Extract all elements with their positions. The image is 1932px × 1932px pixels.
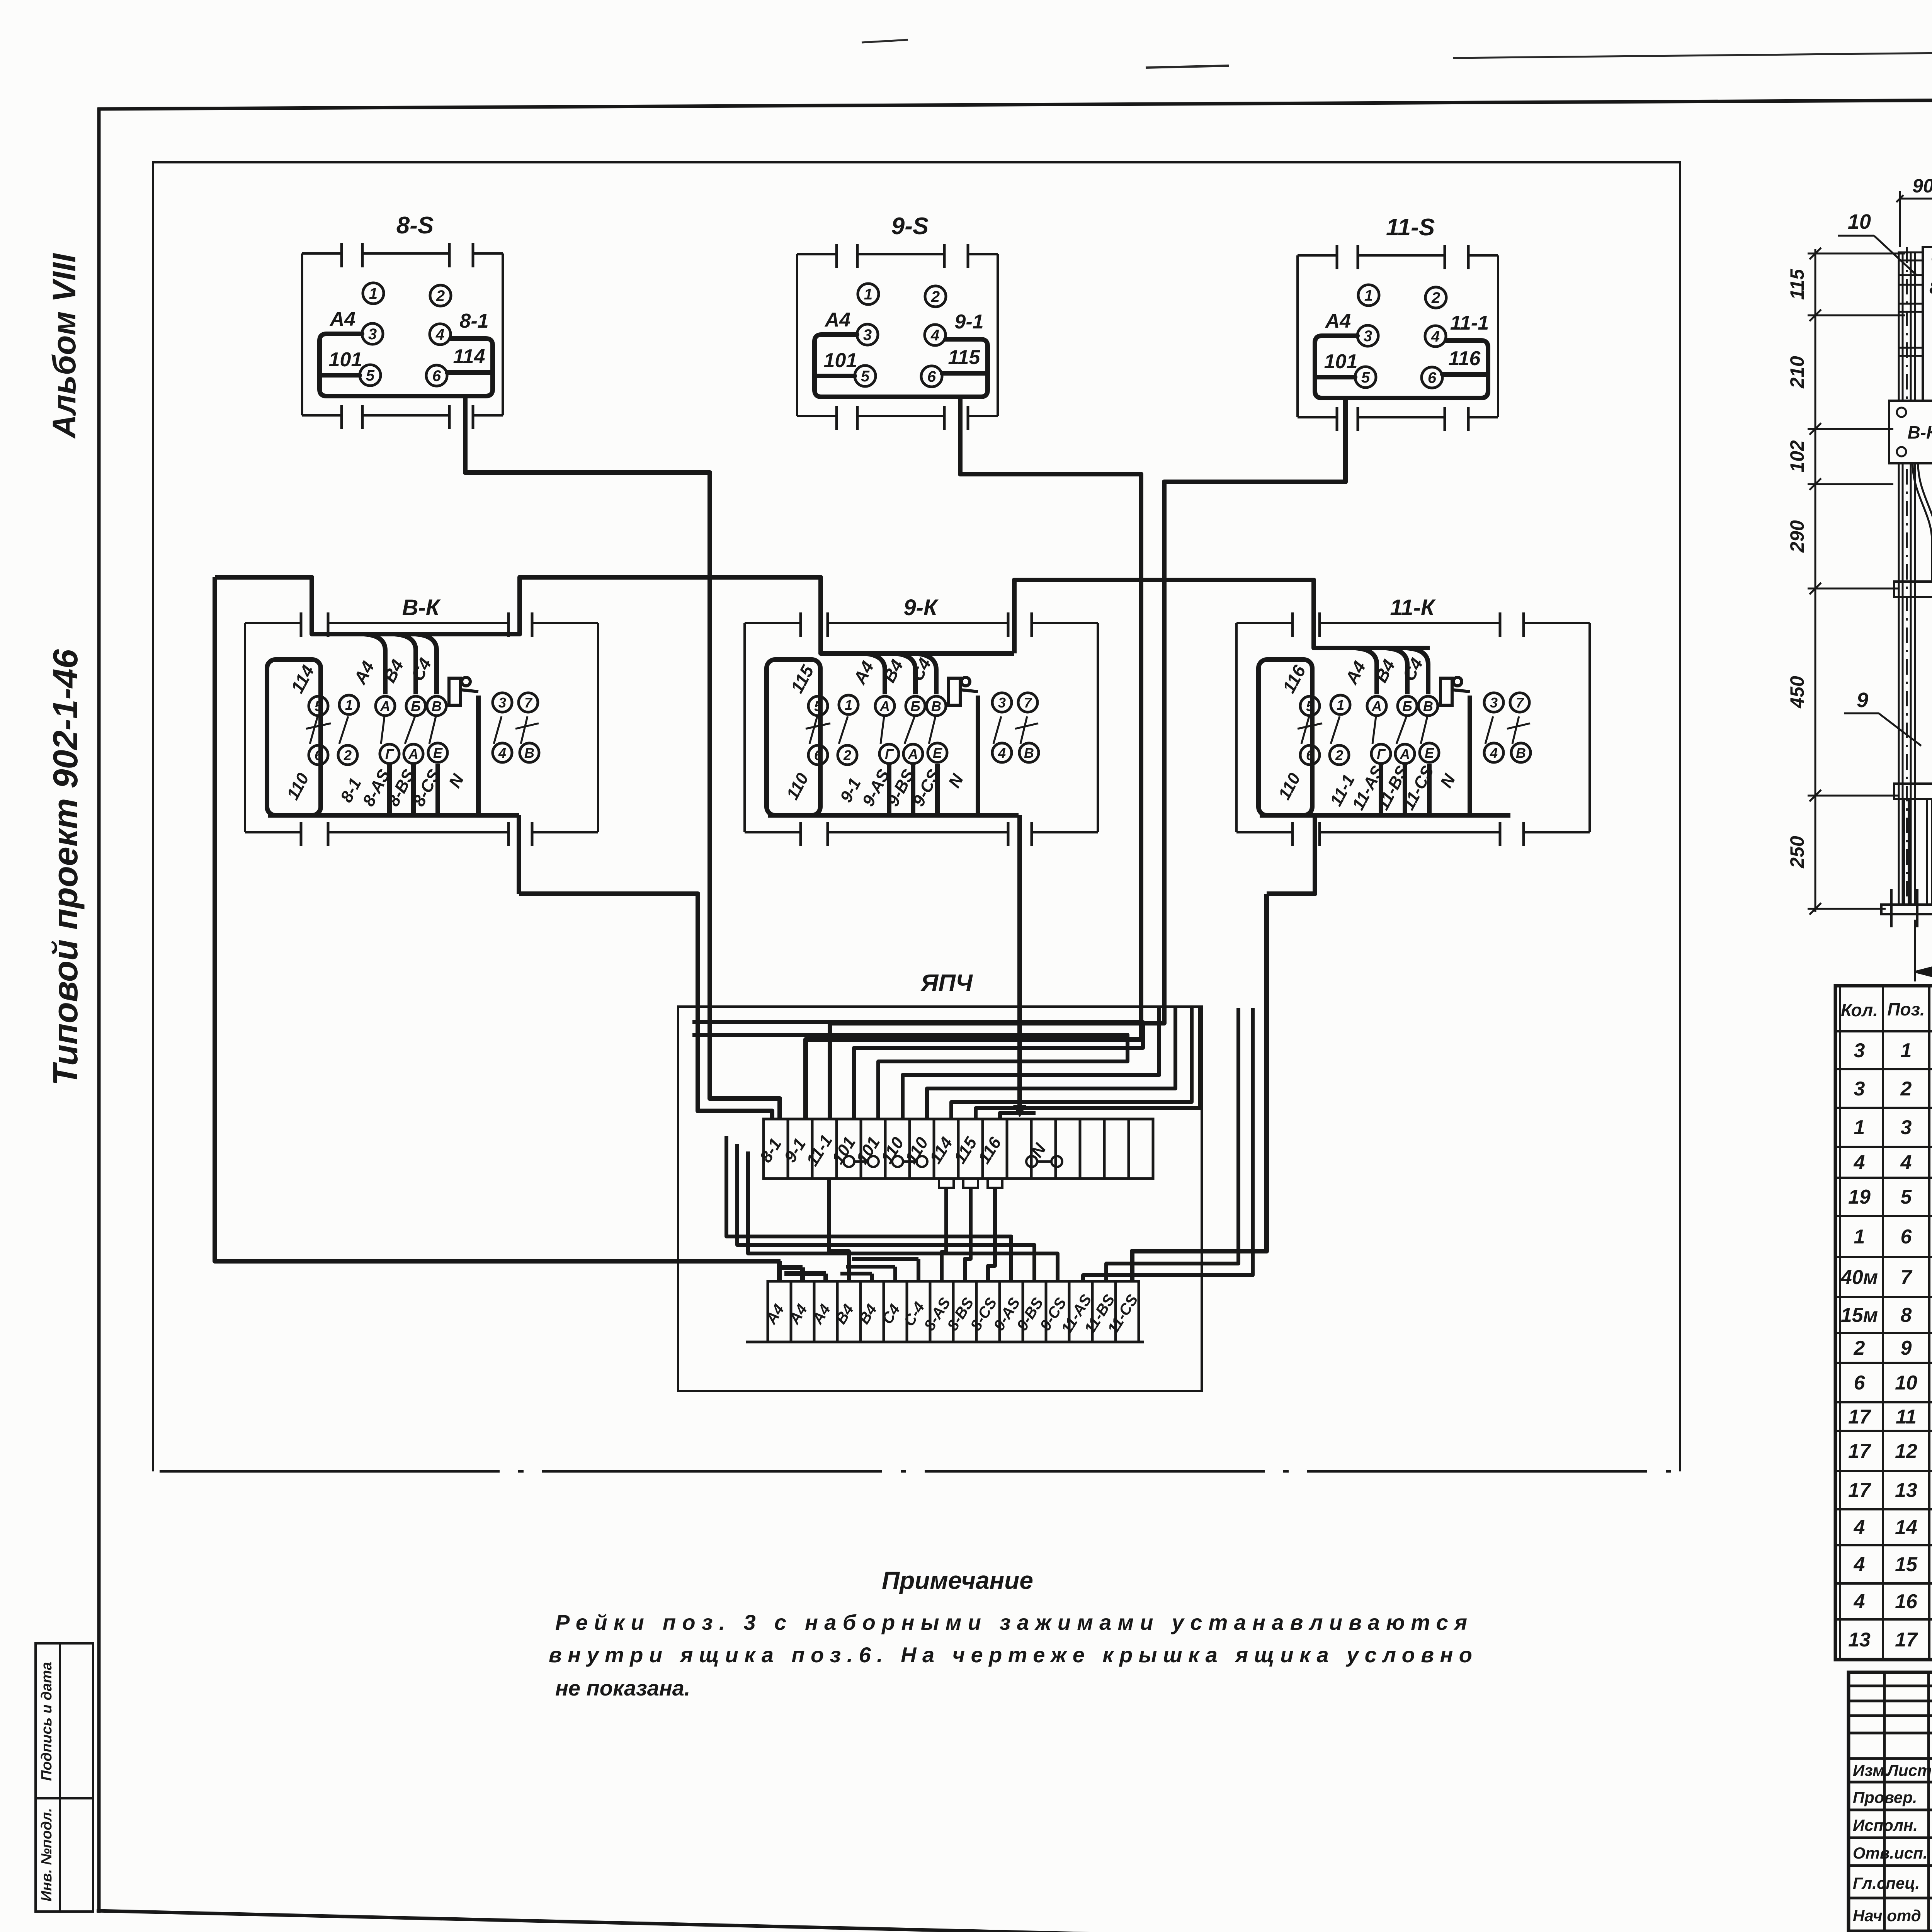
svg-text:Е: Е (933, 745, 942, 761)
connector box 8-S (302, 243, 503, 429)
svg-text:5: 5 (1361, 369, 1370, 386)
svg-text:101: 101 (824, 349, 857, 372)
svg-text:Отв.исп.: Отв.исп. (1853, 1844, 1927, 1862)
9-S internal jumper wires (815, 335, 988, 473)
svg-text:290: 290 (1786, 520, 1808, 553)
svg-text:1: 1 (845, 697, 852, 713)
9-К lower bus (768, 696, 1019, 815)
svg-text:А4: А4 (824, 309, 851, 331)
11-К terminals (1300, 693, 1531, 765)
svg-text:12: 12 (1895, 1440, 1917, 1463)
svg-text:В-К: В-К (402, 595, 441, 620)
svg-text:5: 5 (315, 698, 323, 714)
8-К rotated wire number labels (287, 662, 318, 696)
11-К auxiliary contact block (1440, 677, 1470, 705)
11-К exit wire (1267, 815, 1315, 894)
svg-text:5: 5 (814, 698, 822, 714)
svg-text:Е: Е (433, 745, 443, 761)
svg-text:15: 15 (1895, 1553, 1918, 1576)
svg-text:4: 4 (435, 326, 444, 343)
power trunk А4/В4/С4 snaking across К boxes (215, 577, 1430, 653)
svg-text:Рейки поз. 3 с наборными з: Рейки поз. 3 с наборными зажимами устана… (555, 1610, 1467, 1634)
svg-text:А4: А4 (786, 1301, 811, 1328)
8-К phase feed hooks (364, 634, 437, 694)
ЯПЧ lower terminal strip (746, 1281, 1144, 1342)
svg-text:2: 2 (1854, 1337, 1865, 1359)
svg-text:115: 115 (948, 346, 981, 369)
svg-text:N: N (445, 771, 468, 791)
svg-text:3: 3 (1854, 1039, 1865, 1062)
svg-text:115: 115 (1786, 269, 1808, 300)
8-S internal jumper wires (320, 334, 493, 473)
starter box 9-К (745, 612, 1098, 846)
svg-text:С4: С4 (1398, 655, 1427, 684)
wire 11-S to ЯПЧ terminal 11-1 (830, 398, 1345, 1118)
svg-text:А4: А4 (350, 658, 378, 687)
svg-text:Изм.: Изм. (1853, 1761, 1889, 1779)
svg-text:N: N (945, 771, 968, 791)
svg-text:В: В (524, 745, 534, 761)
svg-text:6: 6 (1306, 747, 1314, 763)
9-S terminals 1-6 (855, 284, 946, 387)
svg-text:8-S: 8-S (396, 212, 434, 239)
8-К contact symbols (306, 716, 539, 744)
11-К phase labels (1341, 655, 1427, 687)
svg-text:8-S: 8-S (1929, 277, 1932, 298)
svg-text:4: 4 (998, 745, 1006, 761)
svg-text:А: А (1371, 698, 1382, 714)
svg-text:Примечание: Примечание (882, 1566, 1033, 1594)
svg-text:3: 3 (368, 326, 377, 343)
svg-text:Провер.: Провер. (1853, 1788, 1917, 1806)
svg-text:6: 6 (814, 747, 822, 763)
svg-text:А4: А4 (809, 1301, 834, 1328)
svg-text:11-1: 11-1 (1450, 312, 1489, 334)
svg-text:7: 7 (524, 695, 533, 711)
svg-text:не показана.: не показана. (555, 1676, 690, 1700)
svg-text:4: 4 (1490, 745, 1498, 761)
svg-text:1: 1 (864, 286, 872, 303)
svg-text:11: 11 (1896, 1406, 1917, 1428)
svg-text:1: 1 (1854, 1226, 1865, 1248)
8-К phase labels (350, 655, 435, 687)
svg-text:3: 3 (1490, 695, 1498, 711)
svg-text:8-1: 8-1 (459, 310, 488, 332)
9-К rotated wire number labels (787, 662, 818, 696)
front view mounting rails (1899, 252, 1932, 356)
svg-text:2: 2 (1431, 289, 1440, 306)
strip jumper links (844, 1156, 1062, 1188)
9-К terminals (808, 693, 1039, 765)
connector box 9-S (797, 244, 998, 430)
svg-text:3: 3 (863, 327, 872, 344)
svg-text:В-К: В-К (1908, 422, 1932, 442)
svg-text:19: 19 (1848, 1186, 1871, 1208)
svg-text:16: 16 (1895, 1590, 1918, 1613)
11-К lower bus (1260, 696, 1510, 815)
svg-text:5: 5 (861, 368, 870, 385)
svg-text:В: В (1024, 745, 1034, 761)
svg-text:4: 4 (1854, 1516, 1865, 1539)
svg-text:3: 3 (998, 695, 1006, 711)
upper cross rail with lugs (1894, 575, 1932, 597)
svg-text:А4: А4 (329, 308, 356, 330)
svg-text:3: 3 (1854, 1078, 1865, 1100)
svg-text:N: N (1437, 771, 1459, 791)
svg-text:Б: Б (910, 698, 920, 714)
parts table grid (1835, 986, 1932, 1660)
switch plates 8-S 9-S 11-S (1923, 247, 1932, 402)
svg-text:6: 6 (1854, 1372, 1866, 1394)
svg-text:В: В (432, 698, 442, 714)
svg-text:90: 90 (1912, 175, 1932, 197)
9-К phase feed hooks (864, 653, 936, 694)
svg-text:116: 116 (1449, 347, 1481, 370)
svg-text:114: 114 (287, 662, 318, 696)
svg-text:6: 6 (927, 368, 936, 385)
svg-text:1: 1 (1364, 287, 1373, 304)
title block grid (1849, 1672, 1932, 1931)
stands (poz 9) (1899, 247, 1932, 912)
svg-text:4: 4 (1854, 1151, 1865, 1174)
svg-text:4: 4 (1854, 1590, 1865, 1613)
svg-text:А4: А4 (1325, 310, 1351, 332)
9-К control wire labels (783, 766, 968, 810)
svg-text:В: В (1516, 745, 1526, 761)
svg-text:11-К: 11-К (1390, 595, 1436, 620)
connector box 11-S (1298, 245, 1498, 431)
11-S wire labels (1324, 310, 1489, 373)
svg-text:116: 116 (1279, 662, 1310, 697)
conduits plates to starters (1913, 402, 1932, 464)
legs and feet (1881, 799, 1932, 927)
svg-text:В: В (931, 698, 941, 714)
svg-text:115: 115 (787, 662, 818, 696)
svg-text:6: 6 (315, 747, 323, 763)
svg-text:А: А (908, 746, 918, 762)
wire 8-К to ЯПЧ (519, 894, 772, 1118)
svg-text:ЯПЧ: ЯПЧ (920, 970, 973, 997)
11-К contact symbols (1298, 716, 1530, 744)
8-S terminals 1-6 (360, 283, 451, 386)
11-S internal jumper wires (1315, 336, 1488, 482)
svg-text:В4: В4 (855, 1301, 880, 1327)
svg-text:А: А (879, 698, 890, 714)
starter box 8-К (245, 612, 598, 846)
8-К terminals (309, 693, 539, 765)
junction box ЯПЧ outline (678, 1007, 1202, 1391)
svg-text:Инв. №подл.: Инв. №подл. (39, 1808, 55, 1901)
9-К exit wire (0, 0, 2, 2)
svg-text:1: 1 (369, 285, 378, 302)
svg-text:2: 2 (843, 747, 851, 763)
svg-text:А4: А4 (1341, 658, 1370, 687)
8-К control wire labels (283, 766, 468, 810)
wire 11-К to ЯПЧ (right side) (1132, 894, 1267, 1281)
svg-text:2: 2 (1335, 747, 1343, 763)
ЯПЧ upper terminal strip (764, 1119, 1153, 1179)
ЯПЧ internal wiring (692, 1008, 1253, 1281)
svg-text:Исполн.: Исполн. (1853, 1816, 1918, 1834)
svg-text:101: 101 (1324, 350, 1358, 373)
9-К feeder loop (767, 660, 820, 815)
11-S terminals 1-6 (1355, 285, 1446, 388)
svg-text:9-1: 9-1 (954, 311, 983, 333)
signature rows (1853, 1761, 1932, 1925)
svg-text:4: 4 (1431, 328, 1440, 345)
svg-text:17: 17 (1848, 1440, 1871, 1463)
svg-text:Лист: Лист (1886, 1761, 1932, 1779)
8-К lower bus (268, 696, 519, 815)
svg-text:3: 3 (1901, 1116, 1912, 1139)
9-К contact symbols (806, 716, 1038, 744)
svg-text:Г: Г (1377, 746, 1386, 762)
svg-text:3: 3 (1364, 328, 1372, 345)
svg-text:10: 10 (1848, 210, 1871, 233)
svg-text:В: В (1423, 698, 1433, 714)
svg-text:Нач.отд: Нач.отд (1853, 1906, 1921, 1925)
svg-text:110: 110 (283, 770, 313, 803)
svg-text:1: 1 (345, 697, 353, 713)
9-К auxiliary contact block (949, 677, 978, 705)
svg-text:2: 2 (344, 747, 352, 763)
svg-text:2: 2 (1900, 1078, 1912, 1100)
dimension 480 (1915, 920, 1932, 981)
svg-text:А4: А4 (762, 1301, 787, 1328)
svg-text:116: 116 (975, 1134, 1005, 1167)
top dimension chain 90/170/170 (1896, 191, 1932, 255)
svg-text:внутри ящика поз.6. На чер: внутри ящика поз.6. На чертеже крышка ящ… (549, 1643, 1472, 1667)
svg-text:2: 2 (436, 287, 445, 304)
svg-text:7: 7 (1024, 695, 1032, 711)
starter box 11-К (1236, 612, 1590, 846)
svg-text:11-1: 11-1 (803, 1131, 836, 1169)
svg-text:14: 14 (1895, 1516, 1917, 1539)
svg-text:Б: Б (1402, 698, 1412, 714)
8-К auxiliary contact block (449, 677, 478, 705)
svg-text:5: 5 (1901, 1186, 1912, 1208)
9-К phase labels (849, 655, 935, 687)
parts table rows (1840, 1039, 1932, 1651)
inner drawing frame (153, 162, 1680, 1471)
svg-text:Альбом VIII: Альбом VIII (46, 253, 82, 439)
svg-text:Гл.спец.: Гл.спец. (1853, 1874, 1920, 1892)
svg-text:2: 2 (931, 288, 940, 305)
svg-text:13: 13 (1895, 1479, 1917, 1502)
svg-text:А: А (380, 698, 390, 714)
svg-text:114: 114 (926, 1134, 956, 1167)
scan line top (862, 40, 1932, 68)
svg-text:114: 114 (453, 345, 485, 368)
svg-text:Б: Б (411, 698, 421, 714)
svg-text:1: 1 (1854, 1116, 1865, 1139)
parts table header (1841, 989, 1932, 1037)
svg-text:3: 3 (498, 695, 506, 711)
svg-text:40м: 40м (1840, 1266, 1878, 1289)
svg-text:250: 250 (1786, 836, 1808, 869)
svg-text:Поз.: Поз. (1887, 999, 1925, 1019)
11-К control wire labels (1275, 763, 1459, 813)
svg-text:13: 13 (1848, 1629, 1871, 1651)
svg-text:5: 5 (366, 367, 375, 384)
svg-text:17: 17 (1895, 1629, 1918, 1651)
8-К feeder loop (267, 660, 321, 815)
svg-text:17: 17 (1848, 1479, 1871, 1502)
svg-text:101: 101 (329, 349, 362, 371)
svg-text:А: А (408, 746, 418, 762)
svg-text:7: 7 (1516, 695, 1524, 711)
svg-text:С4: С4 (879, 1301, 903, 1327)
8-К exit wire (517, 815, 521, 894)
svg-text:210: 210 (1786, 356, 1808, 389)
svg-text:4: 4 (498, 745, 506, 761)
svg-text:17: 17 (1848, 1406, 1871, 1428)
svg-text:Г: Г (885, 746, 894, 762)
svg-text:6: 6 (432, 367, 441, 384)
corner table (Подпись и дата / Инв. №подл.) (36, 1643, 93, 1912)
svg-text:7: 7 (1901, 1266, 1913, 1289)
starter boxes 8-К 9-К 11-К (front view) (1889, 401, 1932, 463)
svg-text:102: 102 (1786, 440, 1808, 473)
svg-text:4: 4 (1900, 1151, 1912, 1174)
svg-text:10: 10 (1895, 1372, 1917, 1394)
svg-text:9: 9 (1901, 1337, 1912, 1359)
svg-text:9-К: 9-К (903, 595, 939, 620)
svg-text:Е: Е (1425, 745, 1434, 761)
svg-text:11-S: 11-S (1386, 214, 1435, 241)
svg-text:Подпись и дата: Подпись и дата (39, 1662, 55, 1781)
wire 8-S to ЯПЧ terminal 8-1 (465, 397, 780, 1118)
11-К feeder loop (1259, 660, 1312, 815)
svg-text:8: 8 (1901, 1304, 1912, 1327)
svg-text:А: А (1400, 746, 1410, 762)
svg-text:1: 1 (1901, 1039, 1912, 1062)
svg-text:5: 5 (1306, 698, 1314, 714)
svg-text:В4: В4 (832, 1301, 857, 1327)
svg-text:110: 110 (783, 770, 812, 803)
svg-text:9-S: 9-S (891, 213, 929, 240)
conduits starters to box (1913, 463, 1932, 582)
left trunk wire to ЯПЧ А4 terminals (215, 577, 826, 1281)
wire 9-К to ЯПЧ (1014, 815, 1026, 1117)
svg-text:15м: 15м (1841, 1304, 1878, 1327)
svg-text:4: 4 (1854, 1553, 1865, 1576)
svg-text:110: 110 (1275, 770, 1304, 803)
svg-text:Кол.: Кол. (1841, 1000, 1878, 1020)
svg-text:9: 9 (1857, 689, 1868, 712)
svg-text:А4: А4 (849, 658, 878, 687)
svg-text:1: 1 (1337, 697, 1344, 713)
11-К rotated wire number labels (1279, 662, 1310, 697)
lower cross rail with lugs (1894, 770, 1932, 799)
9-S wire labels (824, 309, 984, 372)
svg-text:С4: С4 (407, 655, 435, 684)
svg-text:450: 450 (1786, 676, 1808, 709)
left dimension chain (1808, 248, 1905, 915)
svg-text:6: 6 (1428, 369, 1437, 386)
svg-text:Г: Г (385, 746, 395, 762)
svg-text:8-1: 8-1 (756, 1135, 785, 1166)
svg-text:Типовой проект 902-1-46: Типовой проект 902-1-46 (46, 649, 85, 1085)
11-К phase feed hooks (1355, 648, 1428, 694)
8-S wire labels (329, 308, 489, 371)
svg-text:6: 6 (1901, 1226, 1912, 1248)
wire 9-S to ЯПЧ terminal 9-1 (806, 398, 1141, 1118)
svg-text:4: 4 (930, 327, 939, 344)
svg-text:115: 115 (950, 1134, 981, 1167)
